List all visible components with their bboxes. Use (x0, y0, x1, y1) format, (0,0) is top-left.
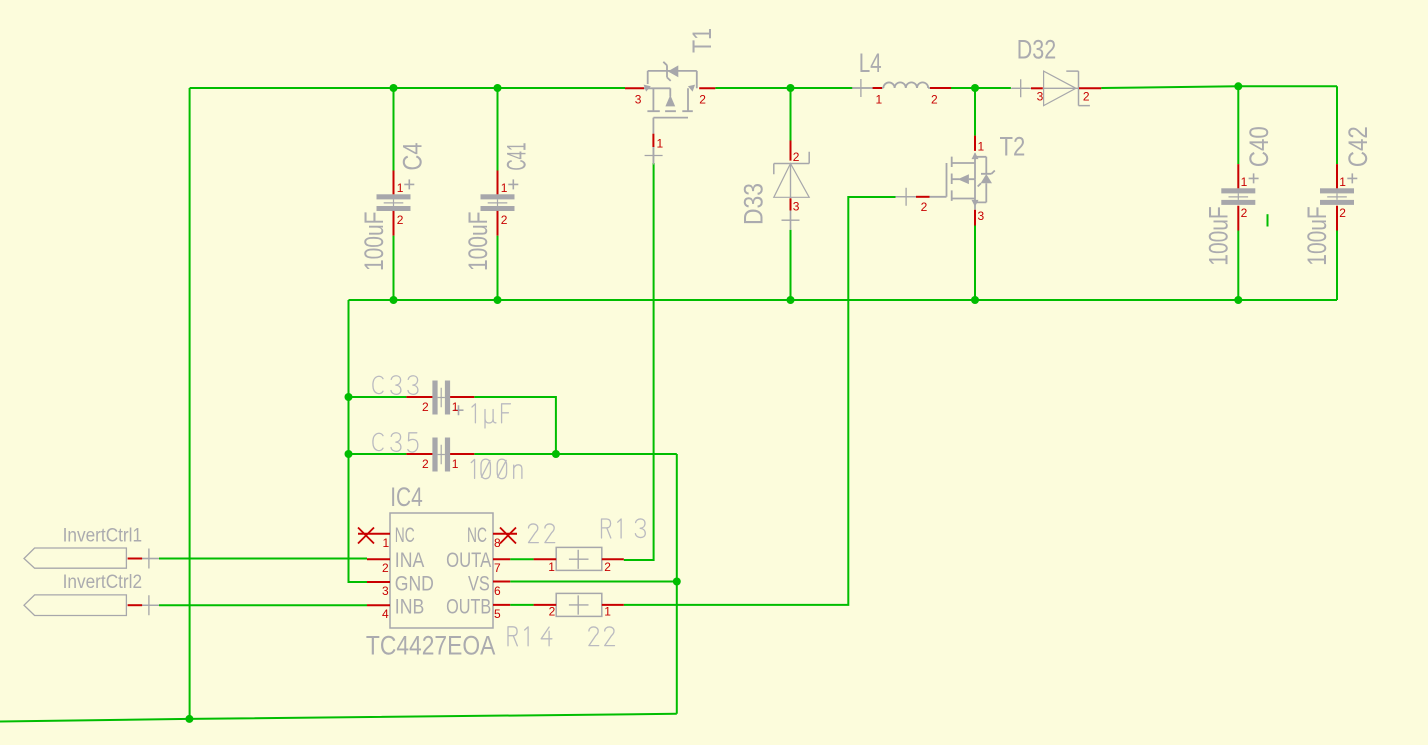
capacitor C42 (1320, 173, 1357, 205)
op-amp driver IC4 box (390, 513, 493, 628)
svg-text:2: 2 (397, 213, 404, 227)
wire VS vertical (676, 454, 678, 714)
wire GND branch (349, 300, 368, 582)
svg-text:2: 2 (501, 213, 508, 227)
wire InvertCtrl1 to INA (159, 558, 367, 560)
svg-text:1: 1 (501, 181, 508, 195)
svg-text:1: 1 (876, 93, 883, 107)
label C35 (373, 433, 418, 452)
svg-text:InvertCtrl1: InvertCtrl1 (63, 525, 143, 546)
svg-text:2: 2 (382, 561, 389, 575)
svg-text:1: 1 (604, 605, 611, 619)
wire C35 net right (474, 453, 677, 455)
label R13 value 22 (529, 524, 555, 543)
svg-text:1: 1 (452, 400, 459, 414)
svg-text:NC: NC (467, 524, 487, 547)
wire D33 branch (790, 88, 792, 300)
svg-text:2: 2 (422, 400, 429, 414)
red pin stubs (128, 88, 1337, 605)
svg-text:4: 4 (382, 607, 389, 621)
svg-text:InvertCtrl2: InvertCtrl2 (63, 572, 143, 593)
capacitor C35 (432, 438, 450, 472)
wire stub near C40 (1267, 214, 1269, 226)
diode D33 (774, 152, 809, 211)
svg-text:INB: INB (395, 596, 425, 619)
resistor R14 (556, 593, 602, 616)
label R14 value 22 (589, 627, 615, 646)
svg-text:3: 3 (978, 209, 985, 223)
svg-text:TC4427EOA: TC4427EOA (366, 631, 495, 661)
svg-text:T1: T1 (687, 28, 717, 53)
capacitor C33 (432, 381, 463, 416)
svg-text:1: 1 (1241, 175, 1248, 189)
wire left vertical rail (189, 88, 191, 719)
pin connection crosses (140, 79, 1030, 615)
svg-text:3: 3 (382, 584, 389, 598)
svg-text:GND: GND (395, 573, 434, 596)
svg-text:IC4: IC4 (390, 482, 423, 512)
svg-text:3: 3 (635, 93, 642, 107)
wire C33 net right (474, 397, 556, 454)
capacitor C4 (377, 179, 415, 211)
wire C40 branch (1237, 86, 1239, 300)
wire T1 gate to R13 (624, 163, 654, 560)
transistor T2 (930, 153, 995, 209)
svg-text:2: 2 (549, 605, 556, 619)
svg-text:L4: L4 (859, 48, 882, 78)
svg-text:5: 5 (494, 607, 501, 621)
wire T2 drain and source branch (974, 88, 976, 300)
label C33 (373, 376, 418, 395)
wire C4 branch (393, 88, 395, 300)
svg-text:2: 2 (422, 457, 429, 471)
svg-text:100uF: 100uF (463, 212, 493, 271)
svg-text:2: 2 (921, 200, 928, 214)
svg-text:2: 2 (931, 93, 938, 107)
svg-text:1: 1 (978, 140, 985, 154)
wire top rail (190, 86, 1337, 88)
wire OUTA to R13 (510, 558, 533, 560)
svg-text:100uF: 100uF (359, 212, 389, 271)
wire bottom rail (0, 714, 677, 722)
svg-text:2: 2 (1241, 206, 1248, 220)
capacitor C40 (1221, 173, 1258, 205)
transistor T1 gray pin leads (652, 147, 654, 163)
no-connect X pin1 (358, 528, 374, 544)
label C35 value 100n (471, 459, 522, 479)
svg-text:C41: C41 (502, 143, 532, 171)
svg-text:D33: D33 (739, 183, 769, 225)
svg-text:INA: INA (395, 549, 425, 572)
flag InvertCtrl2 (24, 595, 126, 616)
diode D32 (1011, 71, 1090, 106)
svg-text:7: 7 (494, 561, 501, 575)
svg-text:D32: D32 (1017, 35, 1056, 65)
svg-text:3: 3 (793, 200, 800, 214)
svg-text:OUTA: OUTA (446, 549, 491, 572)
svg-text:NC: NC (395, 524, 415, 547)
svg-text:2: 2 (604, 560, 611, 574)
gray pin leads (flags, L4, D32, T2 gate) (142, 197, 916, 605)
svg-text:OUTB: OUTB (446, 596, 491, 619)
svg-text:1: 1 (452, 457, 459, 471)
svg-text:1: 1 (397, 181, 404, 195)
transistor T1 (644, 62, 697, 134)
svg-text:2: 2 (1083, 89, 1090, 103)
resistor R13 (556, 547, 602, 570)
svg-text:1: 1 (657, 137, 664, 151)
wire C41 branch (497, 88, 499, 300)
no-connect X pin8 (500, 528, 516, 544)
svg-text:1: 1 (383, 536, 390, 550)
svg-text:3: 3 (1037, 89, 1044, 103)
svg-text:2: 2 (699, 93, 706, 107)
inductor L4 (853, 82, 931, 88)
svg-text:100uF: 100uF (1302, 206, 1332, 265)
svg-text:C40: C40 (1244, 126, 1274, 167)
label R14 (508, 627, 552, 646)
wire C42 branch (1336, 86, 1338, 300)
capacitor C41 (481, 179, 519, 211)
svg-text:C4: C4 (398, 143, 428, 171)
wire VS net (510, 581, 677, 583)
pin numbers red (382, 89, 1346, 621)
svg-text:T2: T2 (1000, 132, 1026, 162)
svg-text:2: 2 (793, 150, 800, 164)
wire C35 net left (349, 453, 407, 455)
wire OUTB to R14 (510, 604, 533, 606)
label R13 (602, 519, 646, 538)
label C33 value 1uF (472, 404, 510, 428)
wire C33 net left (349, 396, 407, 398)
svg-text:1: 1 (1339, 175, 1346, 189)
svg-text:100uF: 100uF (1204, 206, 1234, 265)
svg-text:VS: VS (468, 573, 490, 596)
wire InvertCtrl2 to INB (159, 604, 367, 606)
svg-text:C42: C42 (1343, 126, 1373, 167)
wire R14 to T2 gate (624, 197, 896, 605)
svg-text:6: 6 (494, 584, 501, 598)
svg-text:2: 2 (1339, 206, 1346, 220)
svg-text:1: 1 (548, 560, 555, 574)
flag InvertCtrl1 (24, 548, 126, 568)
wire mid rail (349, 299, 1338, 301)
svg-text:8: 8 (494, 536, 501, 550)
